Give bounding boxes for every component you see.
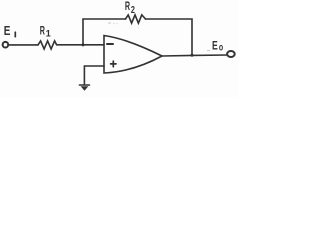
svg-text:E: E bbox=[212, 38, 218, 52]
svg-text:E: E bbox=[4, 24, 11, 38]
svg-text:2: 2 bbox=[131, 5, 135, 16]
svg-text:R: R bbox=[40, 25, 46, 37]
svg-text:o: o bbox=[219, 42, 223, 54]
svg-text:R: R bbox=[125, 0, 130, 13]
svg-text:1: 1 bbox=[46, 28, 51, 38]
